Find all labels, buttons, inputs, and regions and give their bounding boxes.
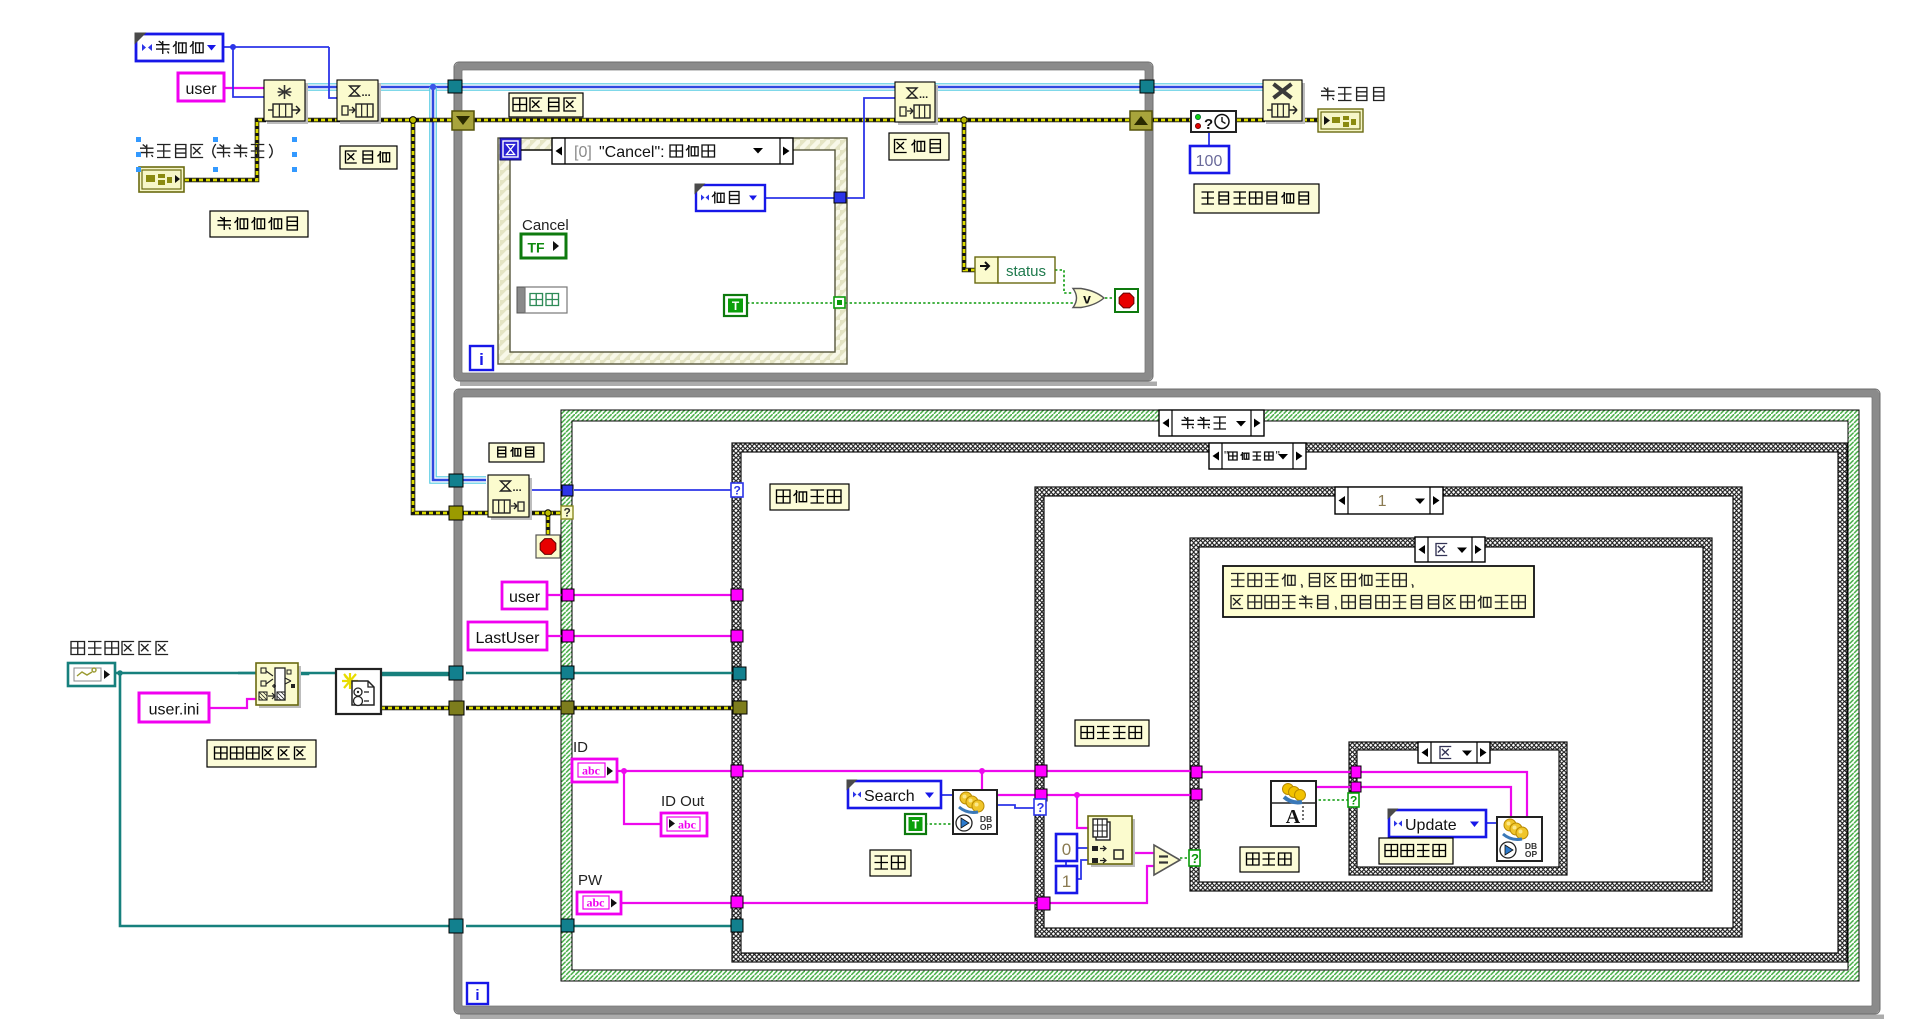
svg-text:OP: OP [980,822,993,832]
svg-text:Update: Update [1405,817,1457,834]
svg-text:v: v [1083,291,1091,307]
svg-text:user: user [509,589,541,606]
svg-text:abc: abc [587,896,606,910]
svg-text:[0]: [0] [574,144,592,161]
svg-text:...: ... [919,89,928,101]
svg-text:i: i [479,350,484,369]
svg-text:Search: Search [864,788,915,805]
svg-text:A: A [1286,806,1301,828]
svg-text:": " [1224,449,1228,463]
svg-text:ID: ID [573,739,588,756]
svg-text:OP: OP [1525,849,1538,859]
svg-text:100: 100 [1196,153,1223,170]
svg-text:user.ini: user.ini [149,702,200,719]
svg-text:"Cancel":: "Cancel": [599,144,665,161]
svg-text:?: ? [564,506,571,520]
svg-text:i: i [475,987,479,1004]
svg-text:abc: abc [582,764,601,778]
svg-text:abc: abc [678,818,697,832]
svg-text:T: T [732,299,740,313]
svg-text:PW: PW [578,872,603,889]
svg-text:...: ... [513,482,522,494]
svg-text:TF: TF [527,240,545,256]
svg-text:?: ? [1191,851,1199,866]
svg-text:...: ... [362,87,371,99]
svg-text:0: 0 [1062,840,1071,859]
svg-text:?: ? [734,484,741,498]
svg-text:?: ? [1204,116,1213,133]
svg-text:1: 1 [1378,493,1387,510]
svg-text:ID Out: ID Out [661,793,705,810]
svg-text:?: ? [1037,800,1045,815]
svg-text:1: 1 [1062,872,1071,891]
svg-text:status: status [1006,263,1046,280]
svg-text:user: user [185,81,217,98]
svg-text:Cancel: Cancel [522,217,569,234]
svg-text:?: ? [1350,794,1357,808]
svg-text:": " [1276,449,1280,463]
svg-text:T: T [912,818,920,832]
svg-text:LastUser: LastUser [475,630,540,647]
